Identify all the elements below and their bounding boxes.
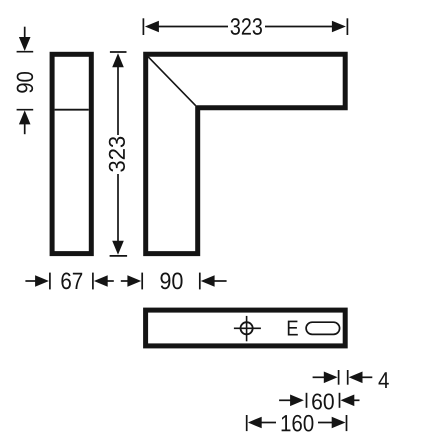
dimension 90 bottom	[121, 273, 227, 290]
dimension 90 upper left	[17, 27, 34, 135]
dimension 323 left	[109, 52, 127, 256]
dimension 4	[313, 370, 389, 388]
mounting point symbol	[234, 316, 261, 341]
dimension 67 bottom	[25, 273, 113, 290]
dimension 60	[279, 393, 359, 410]
dimension 160	[247, 415, 347, 432]
side view lens joint line	[55, 109, 89, 111]
dimension 323 top	[143, 18, 347, 35]
corner profile outline (L-shape plan view)	[146, 54, 346, 253]
label E (electrical connection)	[288, 321, 298, 336]
side view outline	[52, 54, 91, 253]
end view outline	[146, 310, 346, 346]
cable entry slot	[306, 322, 340, 334]
miter joint diagonal	[148, 57, 195, 106]
